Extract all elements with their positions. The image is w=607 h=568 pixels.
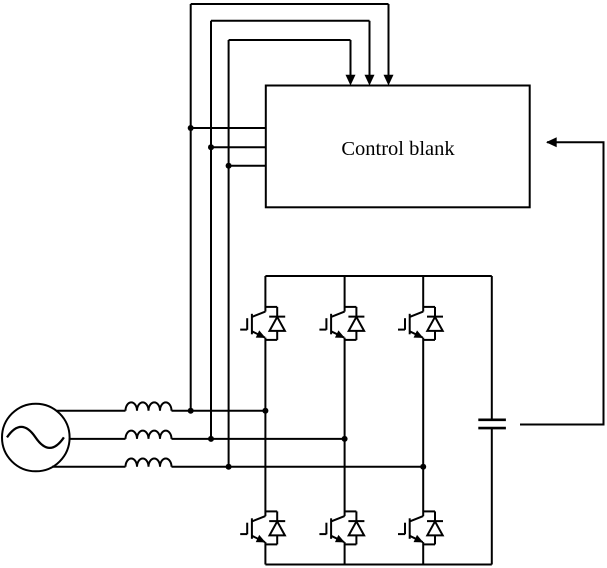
- junction dot phase C / leg3: [420, 464, 426, 470]
- transistor Q2 with diode D2: [319, 307, 364, 340]
- wire: phase C from source: [52, 466, 126, 468]
- junction dot phase B / leg2: [342, 436, 348, 442]
- transistor Q4 with diode D4: [240, 511, 285, 544]
- junction dot phase A / v1: [188, 408, 194, 414]
- wire: leg1 mid lead: [264, 338, 266, 516]
- arrowhead into control top (right): [384, 75, 394, 86]
- wire: phase A feedback vertical (v1): [190, 4, 192, 411]
- control block U1: [266, 86, 530, 208]
- wire: top loop 2 horizontal: [211, 20, 370, 22]
- wire: leg3 mid lead: [422, 338, 424, 516]
- wire: phase C to bridge leg 3: [172, 466, 424, 468]
- wire: phase B feedback vertical (v2): [210, 21, 212, 439]
- wire: leg2 emitter lead: [344, 542, 346, 564]
- arrowhead into control top (middle): [365, 75, 375, 86]
- wire: phase A to bridge leg 1: [172, 410, 266, 412]
- wire: control input 2: [211, 146, 266, 148]
- wire: leg3 collector lead: [422, 276, 424, 312]
- wire: phase B to bridge leg 2: [172, 438, 345, 440]
- wire: loop 1 drop to control: [388, 4, 390, 76]
- inductor L2: [126, 431, 172, 439]
- junction dot v1/input1: [188, 125, 194, 131]
- inductor L3: [126, 458, 172, 466]
- inductor L1: [126, 402, 172, 410]
- wire: phase A from source: [56, 410, 126, 412]
- wire: leg2 mid lead: [344, 338, 346, 516]
- wire: control input 1: [191, 127, 266, 129]
- svg-text:Control blank: Control blank: [341, 138, 455, 160]
- transistor Q6 with diode D6: [398, 511, 443, 544]
- junction dot phase B / v2: [208, 436, 214, 442]
- junction dot phase C / v3: [226, 464, 232, 470]
- wire: top loop 3 horizontal: [229, 39, 351, 41]
- junction dot v3/input3: [226, 163, 232, 169]
- transistor Q3 with diode D3: [398, 307, 443, 340]
- wire: leg2 collector lead: [344, 276, 346, 312]
- wire: top loop 1 horizontal: [191, 3, 389, 5]
- wire: DC link top stub: [491, 276, 493, 420]
- wire: DC top rail: [265, 275, 491, 277]
- wire: control input 3: [229, 165, 266, 167]
- wire: loop 3 drop to control: [350, 40, 352, 76]
- arrowhead into control right: [546, 137, 557, 147]
- junction dot v2/input2: [208, 144, 214, 150]
- wire: phase C feedback vertical (v3): [228, 40, 230, 467]
- wire: DC feedback to control (right): [520, 142, 604, 424]
- wire: phase B from source: [70, 438, 126, 440]
- wire: leg1 emitter lead: [264, 542, 266, 564]
- wire: DC bottom rail: [265, 564, 491, 566]
- transistor Q1 with diode D1: [240, 307, 285, 340]
- wire: leg3 emitter lead: [422, 542, 424, 564]
- wire: leg1 collector lead: [264, 276, 266, 312]
- transistor Q5 with diode D5: [319, 511, 364, 544]
- arrowhead into control top (left): [346, 75, 356, 86]
- wire: DC link bottom stub: [491, 428, 493, 564]
- sine symbol inside source: [7, 427, 64, 448]
- capacitor C1 bottom plate: [478, 427, 506, 430]
- junction dot phase A / leg1: [262, 408, 268, 414]
- wire: loop 2 drop to control: [369, 21, 371, 76]
- AC source G1: [2, 404, 70, 472]
- capacitor C1 top plate: [478, 418, 506, 421]
